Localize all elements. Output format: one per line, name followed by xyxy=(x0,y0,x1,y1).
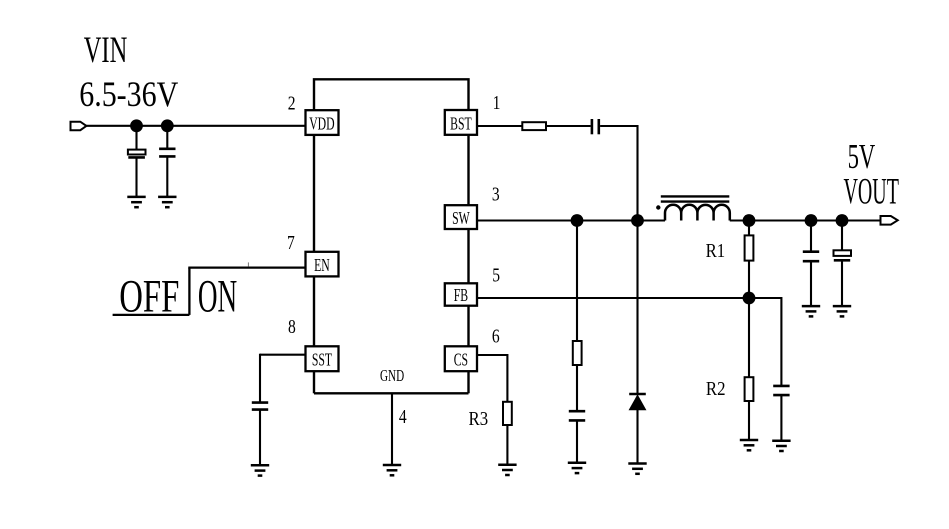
wire soft-start cap to ground xyxy=(259,410,261,466)
pin SST box xyxy=(306,346,339,371)
wire FB node to phase cap xyxy=(780,298,781,386)
inductor phase dot xyxy=(656,205,660,209)
pin FB box xyxy=(445,283,477,306)
ground GND pin xyxy=(383,465,401,475)
wire output cap2 lead xyxy=(841,221,843,251)
svg-text:CS: CS xyxy=(454,351,468,370)
label ON xyxy=(198,271,237,322)
pin number 6 xyxy=(492,325,500,347)
pin EN box xyxy=(306,252,339,277)
wire output cap1 lead xyxy=(810,221,812,252)
node junction on VIN wire (C-in2) xyxy=(161,119,174,132)
svg-text:R2: R2 xyxy=(706,378,726,401)
port VIN input xyxy=(71,122,87,131)
wire R3 to ground xyxy=(506,425,508,465)
capacitor soft-start C3 xyxy=(252,403,268,410)
capacitor output electrolytic C8 xyxy=(834,250,852,260)
ground R3 xyxy=(498,465,516,475)
label OFF xyxy=(119,270,179,322)
svg-text:4: 4 xyxy=(399,405,407,427)
ground snubber xyxy=(568,463,586,473)
pin number 3 xyxy=(492,182,500,204)
wire boost resistor to boost cap xyxy=(546,125,591,127)
capacitor output ceramic C7 xyxy=(803,252,819,262)
wire snubber cap to ground xyxy=(576,420,578,462)
pin number 5 xyxy=(492,264,500,286)
capacitor input ceramic C2 xyxy=(159,149,175,157)
svg-text:7: 7 xyxy=(287,231,295,253)
diode D1 xyxy=(629,394,646,410)
wire CS pin to R3 xyxy=(477,355,508,402)
label 6.5-36V xyxy=(79,76,178,115)
wire diode cathode lead xyxy=(636,221,638,395)
resistor R1 xyxy=(745,235,754,260)
label 5V xyxy=(848,138,876,176)
ground feedback cap xyxy=(772,441,790,451)
label VOUT xyxy=(844,172,899,212)
svg-text:6: 6 xyxy=(492,325,500,347)
node junction output cap1 xyxy=(805,214,818,227)
svg-text:6.5-36V: 6.5-36V xyxy=(79,76,178,115)
capacitor input electrolytic C1 xyxy=(128,150,146,158)
wire soft-start cap lead xyxy=(259,354,261,403)
label GND inside IC xyxy=(380,367,404,386)
wire BST pin to boost resistor xyxy=(477,125,522,127)
wire input cap1 lead xyxy=(135,126,137,150)
wire boost cap to SW node xyxy=(600,126,637,221)
node junction diode xyxy=(631,214,644,227)
pin SW box xyxy=(445,205,477,229)
ground R2 xyxy=(740,440,758,450)
svg-text:FB: FB xyxy=(454,287,468,306)
pin number 1 xyxy=(493,91,501,113)
svg-text:2: 2 xyxy=(288,92,296,114)
wire VIN to VDD xyxy=(86,125,305,127)
wire GND pin 4 xyxy=(391,393,393,465)
op-amp U1 IC body outline xyxy=(314,79,469,393)
wire ON high level to EN xyxy=(188,266,305,268)
svg-text:EN: EN xyxy=(314,257,330,276)
wire feedback cap to ground xyxy=(780,395,782,441)
wire R1 bottom lead xyxy=(748,261,750,298)
inductor L1 coil xyxy=(665,205,730,221)
resistor R3 xyxy=(503,402,512,425)
node junction FB divider xyxy=(743,292,756,305)
wire SST to soft-start cap xyxy=(260,354,306,356)
pin BST box xyxy=(445,110,477,135)
wire output cap2 to ground xyxy=(841,260,843,306)
resistor boost R4 xyxy=(522,122,546,130)
svg-text:ON: ON xyxy=(198,271,237,322)
ground output cap2 xyxy=(833,306,851,316)
inductor L1 core bars xyxy=(661,196,730,201)
wire OFF low level xyxy=(113,314,190,316)
ground output cap1 xyxy=(802,306,820,316)
ground input cap1 xyxy=(127,197,145,207)
ground diode xyxy=(628,464,646,474)
svg-text:1: 1 xyxy=(493,91,501,113)
svg-text:SW: SW xyxy=(452,210,470,229)
svg-text:R3: R3 xyxy=(469,408,489,431)
wire SW pin to inductor xyxy=(477,219,665,221)
svg-text:VDD: VDD xyxy=(309,115,335,134)
wire cap2 to ground xyxy=(166,156,168,197)
wire R2 to ground xyxy=(748,401,750,440)
wire snubber resistor to cap xyxy=(576,365,578,411)
pin number 7 xyxy=(287,231,295,253)
svg-text:SST: SST xyxy=(312,351,332,370)
wire FB pin to feedback node xyxy=(477,297,781,299)
capacitor boost C4 xyxy=(592,119,599,134)
wire step edge xyxy=(188,268,190,315)
ground input cap2 xyxy=(158,197,176,207)
svg-text:VIN: VIN xyxy=(84,29,128,70)
node junction snubber xyxy=(571,214,584,227)
label R3 xyxy=(469,408,489,431)
node junction output cap2 xyxy=(836,214,849,227)
capacitor feedback C6 xyxy=(773,386,789,395)
wire R2 top lead xyxy=(748,298,750,377)
svg-text:VOUT: VOUT xyxy=(844,172,899,212)
svg-text:5V: 5V xyxy=(848,138,876,176)
svg-text:5: 5 xyxy=(492,264,500,286)
wire cap1 to ground xyxy=(135,158,137,197)
resistor R2 xyxy=(745,377,754,401)
capacitor snubber C5 xyxy=(569,411,585,420)
pin CS box xyxy=(445,346,477,371)
node junction R1 top xyxy=(743,214,756,227)
node junction on VIN wire (C-in1) xyxy=(130,119,143,132)
resistor snubber R5 xyxy=(573,341,582,365)
pin number 8 xyxy=(288,315,296,337)
svg-text:R1: R1 xyxy=(706,240,726,263)
wire snubber resistor lead xyxy=(576,221,578,342)
label R1 xyxy=(706,240,726,263)
pin number 2 xyxy=(288,92,296,114)
svg-text:3: 3 xyxy=(492,182,500,204)
wire input cap2 lead xyxy=(166,126,168,149)
pin number 4 xyxy=(399,405,407,427)
wire inductor to VOUT port xyxy=(730,219,881,221)
label VIN xyxy=(84,29,128,70)
svg-text:GND: GND xyxy=(380,367,404,386)
tick mark above EN wire xyxy=(247,262,249,266)
wire diode anode to ground xyxy=(636,410,638,464)
svg-text:8: 8 xyxy=(288,315,296,337)
label R2 xyxy=(706,378,726,401)
ground soft-start cap xyxy=(251,465,269,475)
pin VDD box xyxy=(306,110,339,135)
port VOUT output xyxy=(881,216,898,225)
wire output cap1 to ground xyxy=(810,261,812,306)
svg-text:BST: BST xyxy=(450,115,471,134)
wire R1 top lead xyxy=(748,221,750,236)
